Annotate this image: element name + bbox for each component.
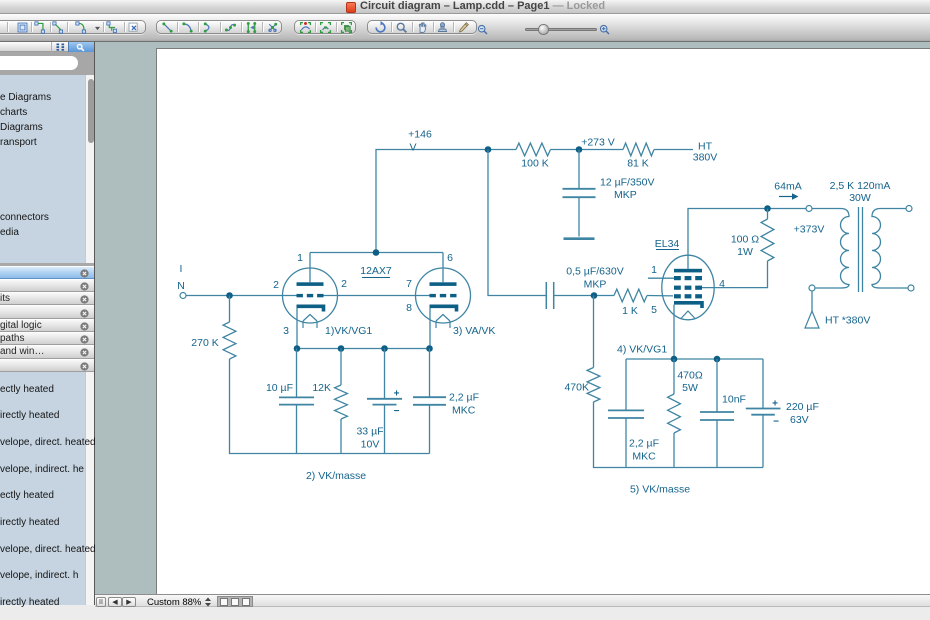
svg-text:100 Ω: 100 Ω [731, 234, 759, 246]
svg-text:12 µF/350V: 12 µF/350V [600, 177, 655, 189]
svg-text:−: − [773, 417, 779, 428]
svg-text:30W: 30W [849, 192, 871, 204]
svg-text:380V: 380V [693, 152, 718, 164]
svg-text:3) VA/VK: 3) VA/VK [453, 325, 495, 337]
svg-text:12AX7: 12AX7 [360, 265, 392, 277]
svg-text:+: + [394, 388, 400, 399]
svg-text:5: 5 [651, 304, 657, 316]
svg-text:MKC: MKC [632, 451, 656, 463]
svg-text:5W: 5W [682, 382, 698, 394]
svg-text:+373V: +373V [794, 224, 825, 236]
svg-text:0,5 µF/630V: 0,5 µF/630V [566, 266, 623, 278]
svg-text:7: 7 [406, 278, 412, 290]
svg-text:MKC: MKC [452, 405, 476, 417]
svg-text:−: − [394, 406, 400, 417]
svg-text:1: 1 [651, 264, 657, 276]
svg-text:33 µF: 33 µF [356, 426, 383, 438]
svg-text:64mA: 64mA [774, 181, 801, 193]
svg-text:+146: +146 [408, 129, 432, 141]
svg-text:MKP: MKP [614, 189, 637, 201]
svg-text:+273 V: +273 V [581, 137, 615, 149]
svg-text:63V: 63V [790, 414, 809, 426]
svg-text:N: N [177, 280, 185, 292]
svg-text:12K: 12K [312, 382, 331, 394]
svg-text:470Ω: 470Ω [677, 370, 703, 382]
svg-text:3: 3 [283, 325, 289, 337]
svg-text:HT *380V: HT *380V [825, 315, 870, 327]
svg-text:4) VK/VG1: 4) VK/VG1 [617, 344, 667, 356]
svg-text:V: V [409, 142, 416, 154]
svg-text:6: 6 [447, 252, 453, 264]
svg-text:1: 1 [297, 252, 303, 264]
svg-text:+: + [772, 399, 778, 410]
svg-text:2: 2 [273, 279, 279, 291]
svg-text:2,5 K 120mA: 2,5 K 120mA [830, 180, 891, 192]
svg-text:5) VK/masse: 5) VK/masse [630, 484, 690, 496]
svg-text:2) VK/masse: 2) VK/masse [306, 470, 366, 482]
svg-text:10V: 10V [361, 439, 380, 451]
svg-text:220 µF: 220 µF [786, 401, 819, 413]
svg-text:2: 2 [341, 278, 347, 290]
svg-text:1 K: 1 K [622, 305, 638, 317]
svg-text:1)VK/VG1: 1)VK/VG1 [325, 325, 372, 337]
svg-text:2,2 µF: 2,2 µF [449, 392, 479, 404]
svg-text:8: 8 [406, 302, 412, 314]
svg-text:MKP: MKP [584, 279, 607, 291]
svg-text:100 K: 100 K [521, 158, 548, 170]
svg-text:EL34: EL34 [655, 238, 680, 250]
svg-text:10 µF: 10 µF [266, 382, 293, 394]
svg-text:1W: 1W [737, 246, 753, 258]
svg-text:81 K: 81 K [627, 158, 649, 170]
svg-text:I: I [180, 263, 183, 275]
svg-text:2,2 µF: 2,2 µF [629, 438, 659, 450]
svg-text:270 K: 270 K [191, 337, 218, 349]
svg-text:10nF: 10nF [722, 394, 746, 406]
svg-text:470K: 470K [564, 382, 589, 394]
